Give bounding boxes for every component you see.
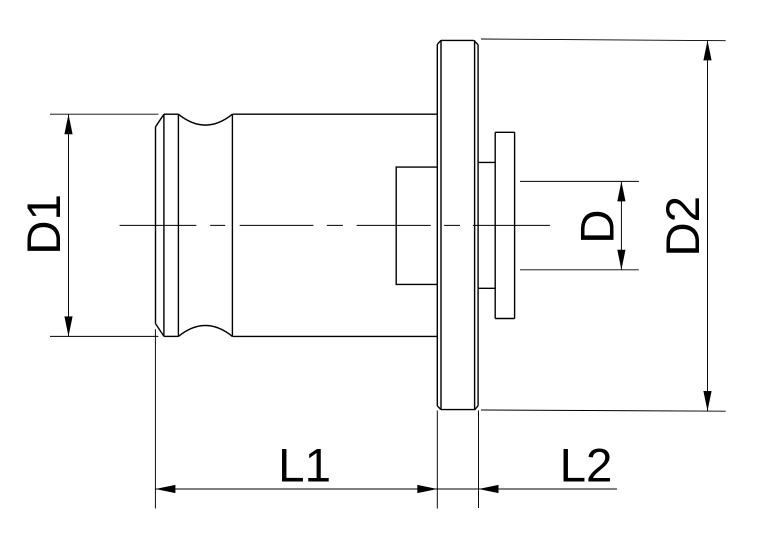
- flange chamfer bottom-left: [437, 406, 441, 410]
- collar bottom edge: [495, 318, 514, 320]
- shank top outline: [164, 113, 178, 115]
- body top outline: [232, 113, 437, 115]
- D2 arrowhead bottom: [703, 391, 711, 411]
- groove left edge line: [177, 114, 179, 336]
- D arrowhead top: [617, 181, 625, 201]
- flange outer left edge: [436, 44, 438, 406]
- svg-text:D2: D2: [657, 196, 710, 257]
- D1 dimension line: [68, 114, 70, 336]
- D1 arrowhead bottom: [64, 316, 72, 336]
- L2 arrowhead left: [479, 485, 499, 493]
- D1 extension line top: [50, 113, 158, 115]
- flange inner right line: [474, 40, 476, 409]
- L1 extension line right: [436, 411, 438, 509]
- hub top edge: [478, 161, 495, 163]
- D1 arrowhead top: [64, 114, 72, 134]
- D2 arrowhead top: [703, 40, 711, 60]
- center line dash-dot: [120, 224, 550, 226]
- svg-text:D: D: [572, 209, 625, 243]
- L2 extension line: [478, 411, 480, 509]
- shank top-left chamfer: [156, 114, 165, 127]
- collar right edge: [514, 132, 516, 318]
- shank bottom-left chamfer: [156, 324, 165, 337]
- flange chamfer top-left: [437, 40, 441, 44]
- shank bottom outline: [164, 335, 178, 337]
- L1 arrowhead right: [417, 485, 437, 493]
- collar left edge: [494, 132, 496, 318]
- L1 extension line left: [154, 329, 156, 508]
- D1 extension line bottom: [50, 335, 158, 337]
- L1 dimension line: [155, 488, 437, 490]
- shank chamfer edge line: [163, 114, 165, 336]
- groove right edge line: [231, 114, 233, 336]
- collar top edge: [495, 131, 514, 133]
- neck boss rectangle: [396, 167, 437, 284]
- D extension line top: [520, 180, 639, 182]
- D2 extension line bottom: [481, 410, 726, 411]
- L2 dimension line: [479, 488, 618, 490]
- body bottom outline: [232, 335, 437, 337]
- svg-text:D1: D1: [18, 194, 71, 255]
- flange inner left line: [440, 40, 442, 409]
- groove top arc: [178, 114, 232, 125]
- flange chamfer top-right: [474, 40, 478, 44]
- flange chamfer bottom-right: [475, 406, 478, 410]
- flange top edge: [441, 39, 474, 41]
- hub bottom edge: [478, 287, 495, 289]
- D extension line bottom: [520, 269, 639, 271]
- flange bottom edge: [441, 409, 475, 411]
- L1 arrowhead left: [155, 485, 175, 493]
- D2 extension line top: [481, 39, 726, 41]
- svg-text:L1: L1: [278, 440, 331, 493]
- shank left end edge: [155, 127, 157, 324]
- groove bottom arc: [178, 326, 232, 337]
- D dimension line: [620, 181, 622, 269]
- D2 dimension line: [707, 40, 709, 411]
- dimension line segment between L1 and L2: [437, 488, 478, 490]
- flange outer right edge: [477, 45, 479, 406]
- D arrowhead bottom: [617, 250, 625, 270]
- svg-text:L2: L2: [560, 440, 613, 493]
